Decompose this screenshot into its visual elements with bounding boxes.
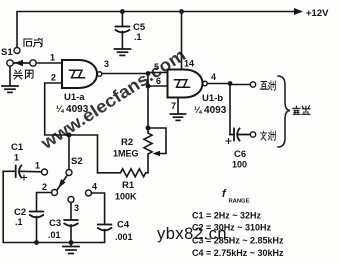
wire node B to pin 6 [148,85,168,87]
plus sign (C6) [226,139,231,144]
svg-text:.1: .1 [15,217,23,227]
wire +12V top rail [17,12,296,48]
svg-text:f: f [222,188,227,200]
label jiaoliu (AC) [261,131,276,141]
junction C2-rail [34,240,39,245]
U1-b output bubble [203,81,208,86]
switch S2 [66,170,72,176]
svg-text:C1 = 2Hz ~ 32Hz: C1 = 2Hz ~ 32Hz [192,211,262,221]
op-amp U1-b (NAND gate) [168,70,203,98]
svg-text:6: 6 [156,76,161,86]
wire S2 contact 2 to C2 [37,193,52,212]
op-amp U1-a (NAND gate) [62,60,97,88]
U1-a hysteresis symbol [70,70,85,77]
S2 contact 3 [68,197,74,203]
svg-text:U1-a: U1-a [64,92,85,103]
wire C1 left lead [3,170,15,172]
wire pin 4 to node C [207,83,230,85]
ground (U1-b pin 7) [171,114,186,120]
wire C4 to bottom rail [101,230,105,243]
wire R1 left to node D [69,135,98,173]
U1-a output bubble [97,72,102,77]
wire C3 to bottom rail [70,225,72,243]
wire S1 to pin 1 [36,62,62,64]
svg-text:3: 3 [104,59,109,69]
S2 contact 1 [42,169,48,175]
svg-text:100K: 100K [115,192,137,202]
S2 contact 4 [86,190,92,196]
junction on +12V rail [179,9,184,14]
ground (bottom rail) [63,243,79,254]
svg-text:7: 7 [171,101,176,111]
R2 wiper arrow [153,151,161,157]
svg-text:S2: S2 [71,156,83,167]
svg-text:S1: S1 [1,47,13,58]
wire node A down to R2 [147,74,149,129]
wire C5 to ground [121,32,123,49]
svg-text:C1: C1 [11,142,24,153]
svg-text:+12V: +12V [306,8,329,19]
switch S1 [7,48,36,67]
wire node A to pin 5 [148,72,168,74]
svg-text:.1: .1 [134,32,142,42]
svg-text:100: 100 [232,160,247,170]
svg-text:4: 4 [211,72,216,82]
wire C1 left rail [3,171,101,242]
wire pin 7 to ground [177,98,179,114]
wire S2 contact 3 to C3 [70,203,72,220]
svg-text:2: 2 [42,182,47,192]
wire node C down to C6 [229,84,231,135]
svg-text:¼ 4093: ¼ 4093 [194,105,227,116]
svg-text:3: 3 [74,203,79,213]
wire C2 to bottom rail [36,217,38,243]
R2 wiper loop [148,128,166,154]
junction node A [146,71,151,76]
capacitor C1 [16,166,22,178]
wire pin 14 from +12V rail [181,12,183,70]
junction node D [67,133,72,138]
svg-text:1: 1 [35,161,40,171]
svg-text:2: 2 [51,73,56,83]
capacitor C6 [230,129,250,141]
ground (S1) [2,86,18,92]
terminal AC [250,132,255,137]
svg-text:C2 = 30Hz ~ 310Hz: C2 = 30Hz ~ 310Hz [192,223,272,233]
junction node B [146,84,151,89]
junction C3-rail [69,240,74,245]
svg-text:U1-b: U1-b [202,93,223,104]
label guanbi (off) [14,70,34,79]
svg-text:1MEG: 1MEG [113,149,139,159]
ground (C5) [115,49,131,55]
output brace [278,76,290,147]
wire S1 pole to ground [9,66,11,85]
wire node D to S2 pole [68,135,70,169]
svg-text:5: 5 [154,62,159,72]
capacitor C4 [98,225,111,231]
wire pin3 to node A [102,73,148,75]
junction node C [228,81,233,86]
potentiometer R2 [144,128,152,173]
svg-text:C4 = 2.75kHz ~ 30kHz: C4 = 2.75kHz ~ 30kHz [192,248,284,258]
svg-text:C4: C4 [117,220,130,231]
junction R2 top [146,126,151,131]
svg-text:.01: .01 [48,230,61,240]
resistor R1 [98,169,149,177]
svg-text:RANGE: RANGE [229,199,250,205]
svg-text:¼ 4093: ¼ 4093 [56,104,89,115]
plus sign (C1) [22,175,27,180]
+12V arrow [294,8,303,15]
svg-text:C3: C3 [49,218,61,229]
capacitor C2 [30,212,43,218]
svg-text:R2: R2 [121,137,133,148]
terminal DC [250,82,255,87]
label shuchu (output) [293,106,310,115]
svg-text:C6: C6 [234,149,246,160]
wire node C to DC terminal [230,84,251,86]
label qidong (start) [24,39,42,47]
wire pin 2 to node A [45,83,67,135]
svg-text:C3 = 285Hz ~ 2.85kHz: C3 = 285Hz ~ 2.85kHz [192,236,284,246]
wire rail to C5 [121,12,123,27]
svg-text:1: 1 [50,53,55,63]
svg-text:1: 1 [14,153,19,163]
svg-text:4: 4 [92,182,97,192]
U1-b hysteresis symbol [175,80,190,87]
wire S2 contact 4 to C4 [92,193,105,224]
S2 lever arrow [59,179,66,188]
svg-text:R1: R1 [122,180,135,191]
wire C1 to S2 contact 1 [21,170,42,173]
capacitor C3 [64,220,77,226]
capacitor C5 [116,27,130,33]
junction C5-rail [120,9,125,14]
label zhiliu (DC) [260,81,275,90]
svg-text:.001: .001 [115,232,133,242]
S2 contact 2 [52,190,58,196]
svg-text:14: 14 [184,59,194,69]
